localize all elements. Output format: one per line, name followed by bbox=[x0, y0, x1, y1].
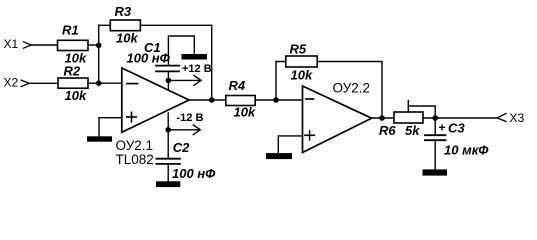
wire R5 right leg bbox=[317, 62, 382, 119]
node X1 bbox=[4, 37, 32, 51]
svg-text:5k: 5k bbox=[405, 123, 420, 138]
node X2 bbox=[4, 75, 30, 89]
ground bbox=[266, 153, 292, 159]
svg-text:C2: C2 bbox=[173, 140, 190, 155]
wire non-inverting input to ground bbox=[99, 118, 122, 137]
wire bbox=[98, 25, 100, 83]
svg-text:10k: 10k bbox=[116, 31, 138, 46]
wire C3 top bbox=[434, 118, 436, 135]
wire bbox=[88, 44, 99, 46]
node X3 bbox=[497, 111, 525, 125]
wire C2 bottom to ground bbox=[167, 164, 169, 181]
wire R5 left leg bbox=[276, 62, 286, 101]
resistor R1 bbox=[58, 23, 89, 66]
V- supply arrow -12 В bbox=[168, 112, 203, 135]
svg-text:100 нФ: 100 нФ bbox=[172, 166, 216, 181]
svg-text:100 нФ: 100 нФ bbox=[127, 51, 171, 66]
wire C3 bottom to ground bbox=[434, 140, 436, 169]
node B junction R2/inverting input bbox=[96, 80, 102, 86]
wire non-inverting input to ground bbox=[278, 136, 302, 153]
svg-text:ОУ2.2: ОУ2.2 bbox=[333, 81, 371, 96]
svg-text:ОУ2.1: ОУ2.1 bbox=[116, 138, 154, 153]
svg-text:R5: R5 bbox=[290, 42, 307, 57]
svg-text:10k: 10k bbox=[291, 67, 313, 82]
node R5 feedback junction bbox=[379, 115, 385, 121]
wire bbox=[31, 44, 58, 46]
wire bbox=[29, 82, 58, 84]
resistor R3 bbox=[110, 4, 140, 45]
wire V- pin bbox=[167, 113, 169, 159]
node R5 junction bbox=[273, 97, 279, 103]
wire bbox=[211, 25, 213, 100]
resistor R2 bbox=[58, 63, 88, 103]
capacitor C2 bbox=[157, 140, 217, 181]
ground bbox=[156, 181, 180, 187]
wire bbox=[140, 24, 211, 26]
wire bbox=[255, 99, 302, 101]
svg-text:10k: 10k bbox=[65, 88, 87, 103]
svg-text:C3: C3 bbox=[448, 121, 465, 136]
svg-text:TL082: TL082 bbox=[116, 152, 154, 167]
svg-text:R2: R2 bbox=[64, 63, 81, 78]
wire C1 bottom to V+ pin bbox=[167, 71, 169, 89]
svg-text:-12 В: -12 В bbox=[177, 112, 204, 124]
wire bbox=[88, 82, 122, 84]
svg-text:R4: R4 bbox=[229, 78, 246, 93]
node output junction bbox=[432, 115, 438, 121]
svg-text:10 мкФ: 10 мкФ bbox=[444, 143, 489, 158]
wire bbox=[423, 117, 497, 119]
svg-text:X1: X1 bbox=[4, 37, 19, 51]
svg-text:R1: R1 bbox=[62, 23, 79, 38]
svg-text:X2: X2 bbox=[4, 75, 19, 89]
node A junction R1/R3 bbox=[96, 43, 102, 49]
wire op1 output bbox=[189, 99, 226, 101]
node V+ junction bbox=[166, 78, 172, 84]
power terminal +12V bar bbox=[182, 54, 208, 60]
svg-text:10k: 10k bbox=[234, 104, 256, 119]
resistor R4 bbox=[226, 78, 256, 119]
V+ supply arrow +12 В bbox=[168, 63, 211, 86]
ground bbox=[87, 136, 112, 141]
ground bbox=[423, 169, 448, 175]
svg-text:+: + bbox=[439, 121, 446, 135]
resistor R5 bbox=[286, 42, 317, 83]
op-amp U2 ОУ2.2 bbox=[303, 81, 372, 153]
node feedback junction bbox=[209, 97, 215, 103]
wire C1 top to +12V rail bbox=[168, 36, 194, 66]
svg-text:+12 В: +12 В bbox=[182, 63, 212, 75]
potentiometer R6 bbox=[379, 101, 435, 139]
capacitor C1 bbox=[127, 40, 180, 72]
svg-text:X3: X3 bbox=[510, 111, 525, 125]
wire bbox=[99, 24, 111, 26]
capacitor C3 bbox=[425, 121, 489, 158]
svg-text:R6: R6 bbox=[379, 123, 396, 138]
node V- junction bbox=[165, 127, 171, 133]
op-amp U1 OУ2.1 bbox=[116, 68, 190, 167]
wire op2 output bbox=[372, 117, 394, 119]
svg-text:R3: R3 bbox=[115, 4, 132, 19]
